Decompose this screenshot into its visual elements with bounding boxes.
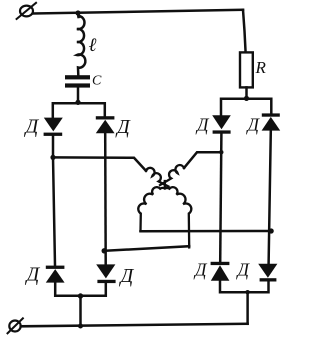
wire bottom rail — [21, 324, 248, 327]
wire resistor to right bridge — [245, 87, 248, 98]
node right-bridge mid-left — [219, 150, 223, 154]
wire top rail — [34, 10, 244, 14]
node left-bridge bottom — [78, 293, 83, 298]
capacitor C — [65, 75, 90, 102]
wire right-bridge mid-left to right winding — [184, 152, 221, 168]
wire right-bridge bottom — [220, 281, 269, 292]
wire left bridge top — [53, 103, 105, 118]
svg-text:Д: Д — [24, 116, 40, 138]
wire right-bridge left branch — [220, 134, 221, 262]
node left-bridge mid-left — [50, 155, 55, 160]
node capacitor to bridge — [75, 100, 80, 105]
wire mid-left to left winding — [53, 157, 146, 170]
wire left-bridge right branch — [104, 133, 107, 264]
node top junction — [75, 10, 80, 15]
svg-text:Д: Д — [119, 265, 135, 287]
node right-bridge bottom tee — [245, 290, 249, 294]
winding W1 left (to star point) — [146, 168, 169, 187]
diode D4 left-bridge bottom-right — [96, 264, 115, 283]
svg-text:Д: Д — [193, 260, 208, 280]
diode D7 right-bridge bottom-left — [211, 262, 230, 281]
wire right-bridge right branch — [269, 131, 271, 264]
svg-text:Д: Д — [246, 115, 261, 135]
diode D3 left-bridge bottom-left — [46, 266, 65, 283]
wire horseshoe left leg to right-bridge mid-right — [141, 230, 272, 233]
node left-bridge mid-right — [102, 248, 107, 253]
wire left-bridge left branch — [53, 136, 55, 266]
svg-text:Д: Д — [115, 116, 131, 138]
wire right-bridge bottom to rail — [246, 292, 249, 324]
diode D6 right-bridge top-right — [262, 113, 281, 130]
diode D2 left-bridge top-right — [96, 116, 115, 133]
svg-text:R: R — [255, 58, 267, 77]
svg-text:C: C — [92, 74, 102, 89]
node right-bridge top — [244, 96, 249, 101]
terminal input top-left — [16, 2, 37, 19]
node right-bridge mid-right — [269, 228, 274, 233]
diode D1 left-bridge top-left — [44, 118, 63, 136]
wire horseshoe right leg to left-bridge mid-right — [104, 246, 189, 251]
node bottom rail — [78, 324, 83, 329]
wire left-bridge bottom — [55, 283, 106, 296]
diode D8 right-bridge bottom-right — [258, 264, 277, 282]
resistor R — [240, 52, 253, 87]
inductor L — [77, 16, 85, 75]
svg-text:ℓ: ℓ — [89, 35, 97, 56]
wire left-bridge bottom to rail — [79, 296, 82, 326]
wire inductor lead top — [77, 13, 80, 17]
svg-text:Д: Д — [195, 115, 210, 135]
wire right bridge top — [221, 99, 271, 116]
svg-text:Д: Д — [236, 260, 251, 280]
winding W2 right (to star point) — [160, 165, 184, 185]
wire top rail corner down to resistor — [243, 10, 246, 53]
winding W3 bottom (horseshoe) — [138, 181, 191, 247]
svg-text:Д: Д — [25, 264, 41, 286]
terminal output bottom-left — [7, 318, 24, 334]
diode D5 right-bridge top-left — [212, 115, 231, 133]
